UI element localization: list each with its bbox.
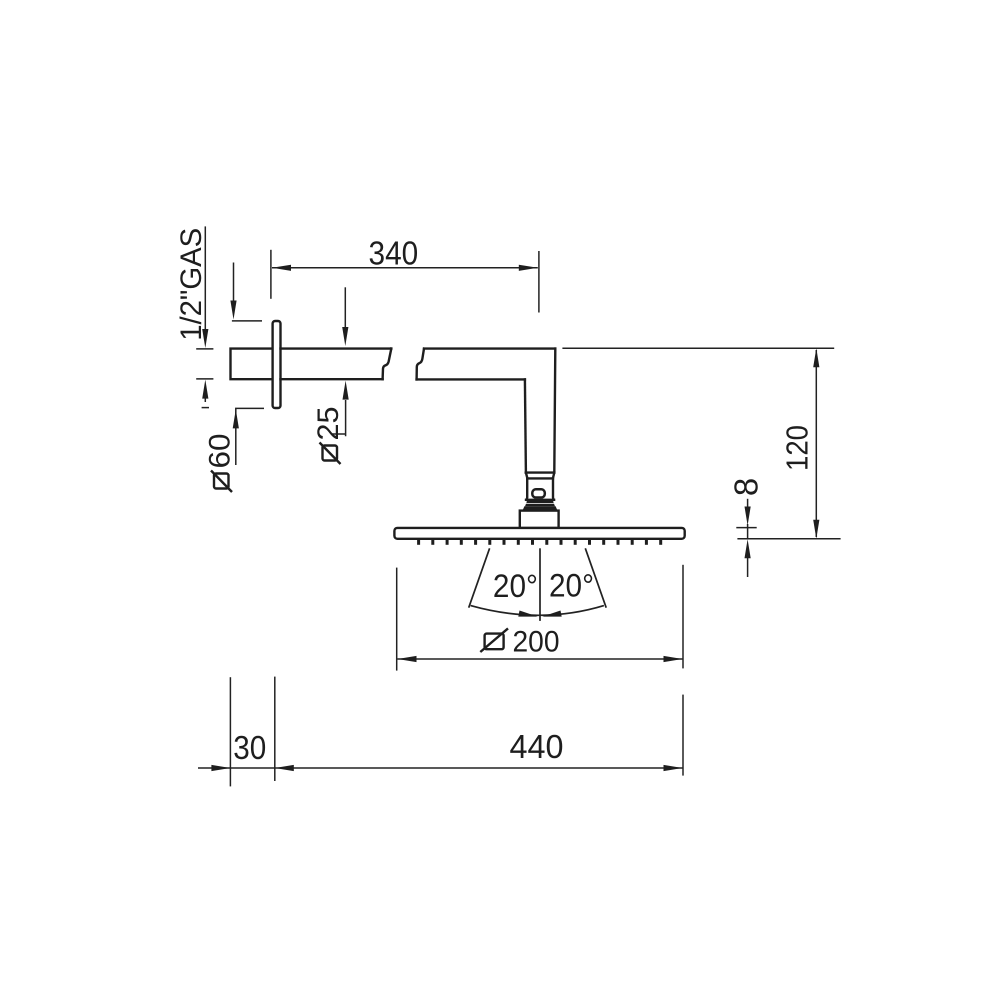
dim o25 upper leader line (344, 287, 346, 328)
svg-text:200: 200 (513, 625, 560, 658)
dim 8 lower leader (747, 558, 749, 577)
arrow 1/2GAS down (202, 329, 208, 348)
shower arm right segment top edge (424, 347, 555, 349)
arrow O200 right (664, 656, 683, 662)
arrow 30 outside left (211, 765, 230, 771)
arrow 1/2GAS up (202, 380, 208, 399)
dim O200 extension right (682, 565, 684, 669)
spray center line (539, 548, 541, 621)
arrow O200 left (398, 656, 417, 662)
spray angle arc (471, 606, 604, 616)
svg-text:8: 8 (728, 478, 765, 496)
dim 8 upper leader (747, 499, 749, 509)
arrow 8 up (745, 539, 751, 558)
dim 440 extension line right (682, 695, 684, 776)
svg-text:340: 340 (369, 235, 419, 272)
arrow 8 down (745, 507, 751, 526)
dim 1/2GAS dimension line upper (204, 226, 206, 331)
dim o60 upper leader line (233, 263, 235, 303)
dim 30 extension line 2 (274, 677, 276, 781)
diameter symbol O200 (480, 628, 508, 652)
gasket dark band 3 wide (522, 506, 557, 511)
shower arm right segment bottom edge (417, 378, 525, 380)
shower head plate (394, 528, 684, 539)
dim 1/2GAS lower tail (204, 397, 206, 402)
ball joint housing (526, 478, 554, 499)
svg-text:440: 440 (510, 728, 564, 765)
dim 340 extension line right (538, 251, 540, 313)
arrow o25 up (343, 381, 349, 400)
dim 8 tick (736, 527, 756, 529)
svg-text:120: 120 (779, 425, 814, 471)
arrow 440 right (664, 765, 683, 771)
break line on arm right segment (417, 349, 424, 380)
dim 340 dimension line (272, 267, 538, 269)
text 8 rotated (728, 478, 765, 496)
dim 340 extension line left (270, 250, 272, 299)
dim 1/2GAS tick top (196, 348, 213, 350)
ball joint inner detail (532, 489, 545, 497)
svg-text:1/2"GAS: 1/2"GAS (175, 228, 208, 341)
dim o60 lower extension (236, 408, 264, 465)
dim 120 top extension line (562, 347, 834, 349)
svg-text:20°: 20° (493, 568, 538, 604)
dim 120 dimension line (815, 350, 817, 537)
dim o60 upper extension (232, 320, 262, 322)
text o25 rotated (312, 407, 345, 465)
dim 1/2GAS tick bottom (196, 378, 213, 380)
dim O200 extension left (396, 568, 398, 671)
svg-text:25: 25 (312, 407, 345, 441)
dim O200 dimension line (398, 658, 683, 660)
gasket dark band 2 (525, 504, 555, 507)
text 120 rotated (779, 425, 814, 471)
text o60 rotated (204, 434, 237, 493)
pipe bottom joint line (526, 471, 554, 473)
svg-text:30: 30 (233, 729, 266, 766)
dim 8 tick-to-extension connector (747, 524, 749, 539)
gasket dark band 1 (526, 500, 553, 503)
dim 30/440 dimension line (198, 767, 683, 769)
arrow o60 up (233, 409, 239, 428)
arrow 340 right (519, 265, 538, 271)
shower arm left segment bottom edge (281, 378, 383, 380)
connector neck (526, 473, 554, 479)
spray left 20deg line (469, 548, 490, 607)
wall flange escutcheon ø60 (273, 321, 281, 408)
elbow vertical pipe outer edge (554, 349, 555, 473)
dim 120 bottom extension line (737, 538, 840, 540)
arrow 440 left (275, 765, 294, 771)
nozzle ticks row (419, 539, 661, 545)
svg-text:60: 60 (204, 434, 237, 469)
arrow arc left (518, 611, 538, 617)
break line on arm left segment (383, 349, 392, 380)
dim 1/2GAS end dash (202, 407, 209, 409)
arrow arc right (542, 611, 562, 617)
spray right 20deg line (585, 548, 606, 607)
arrow o25 down (342, 327, 348, 346)
base block (520, 511, 559, 528)
elbow vertical pipe inner edge (525, 379, 526, 472)
arrow 120 down (813, 520, 819, 539)
shower arm left segment top edge (281, 347, 392, 349)
svg-text:20°: 20° (549, 568, 594, 604)
arrow 340 left (272, 265, 291, 271)
text 1/2"GAS rotated (175, 228, 208, 341)
arrow o60 down (230, 301, 236, 320)
wall nipple (1/2" GAS thread stub) (231, 349, 273, 380)
dim 30 extension line 1 (229, 677, 231, 786)
dim o25 lower leader line (332, 400, 346, 436)
arrow 120 up (813, 348, 819, 367)
